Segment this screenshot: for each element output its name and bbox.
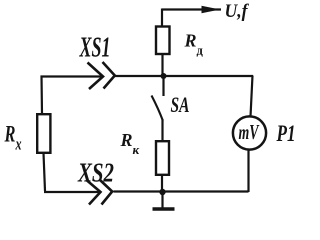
svg-text:XS2: XS2	[77, 158, 114, 188]
svg-text:SA: SA	[171, 94, 190, 117]
svg-text:Rд: Rд	[184, 31, 204, 58]
svg-text:U,f: U,f	[225, 1, 250, 22]
svg-text:mV: mV	[239, 121, 260, 144]
svg-text:Rк: Rк	[120, 130, 140, 157]
svg-text:Rx: Rx	[4, 121, 22, 154]
svg-text:XS1: XS1	[79, 31, 111, 64]
svg-text:P1: P1	[276, 121, 296, 147]
